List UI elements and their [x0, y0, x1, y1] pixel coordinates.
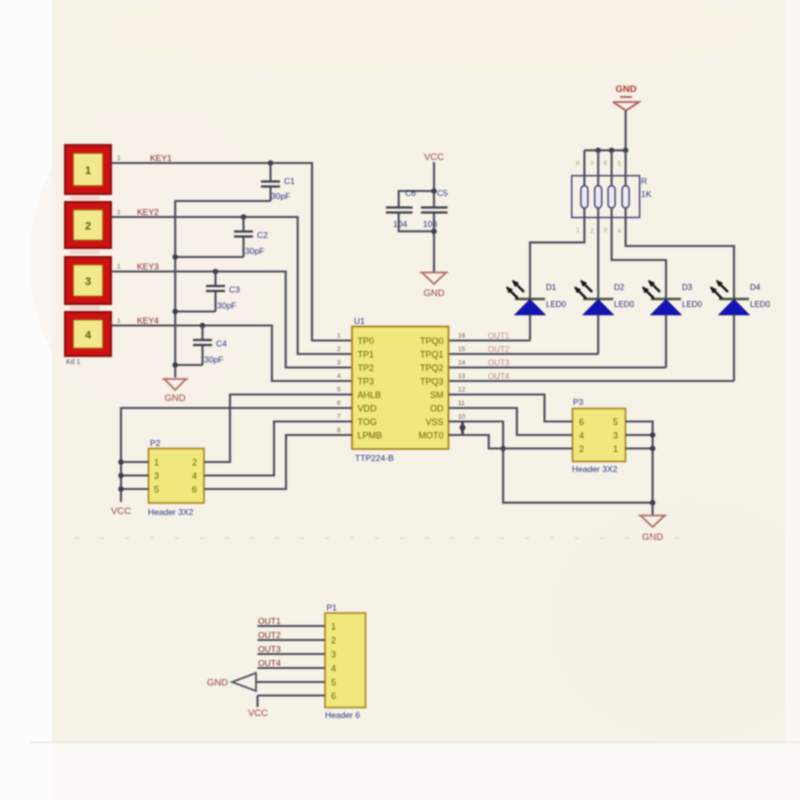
svg-text:OD: OD [430, 404, 444, 414]
svg-text:4: 4 [618, 228, 622, 235]
header P2 3X2 [149, 449, 205, 504]
svg-text:KEY4: KEY4 [137, 316, 159, 326]
svg-text:6: 6 [337, 400, 341, 407]
resistor network R 1K [572, 176, 640, 218]
svg-text:OUT4: OUT4 [488, 372, 510, 381]
svg-text:6: 6 [579, 417, 584, 427]
svg-text:7: 7 [337, 414, 341, 421]
svg-text:3: 3 [604, 227, 608, 234]
LED D1 [507, 281, 545, 315]
wire resistor 1 to LED D1 [530, 150, 584, 299]
svg-text:4: 4 [192, 471, 197, 481]
ground symbol left [163, 379, 189, 390]
svg-text:3: 3 [613, 431, 618, 441]
wire OUT2 IC to LED D2 [449, 315, 599, 354]
svg-text:LED0: LED0 [546, 300, 567, 309]
svg-text:6: 6 [604, 160, 608, 167]
wire P1 pin 1 [258, 625, 326, 627]
svg-text:SM: SM [430, 390, 444, 400]
svg-text:TPQ2: TPQ2 [420, 363, 444, 373]
svg-text:D3: D3 [682, 283, 693, 292]
wire KEY1 [111, 160, 352, 340]
header P3 3X2 [573, 409, 626, 462]
wire VCC to decoupling caps [399, 162, 437, 272]
svg-text:P3: P3 [573, 397, 584, 407]
svg-text:2: 2 [590, 228, 594, 235]
svg-text:5: 5 [613, 417, 618, 427]
svg-text:Header 6: Header 6 [325, 710, 360, 720]
svg-text:OUT1: OUT1 [258, 616, 281, 626]
capacitor C6 [386, 208, 413, 213]
wire OUT4 IC to LED D4 [449, 315, 735, 381]
svg-text:1: 1 [85, 165, 91, 177]
svg-text:30pF: 30pF [245, 246, 264, 256]
svg-text:KEY1: KEY1 [150, 153, 172, 163]
svg-text:5: 5 [154, 485, 159, 495]
wire LPMB to P2 pin 6 [204, 435, 352, 489]
capacitor C5 [421, 208, 448, 213]
faint dashed artifact line [75, 537, 695, 539]
svg-text:30pF: 30pF [271, 191, 290, 201]
svg-text:C1: C1 [284, 176, 295, 186]
svg-text:OUT2: OUT2 [258, 630, 281, 640]
svg-text:OUT2: OUT2 [488, 345, 510, 354]
wire KEY3 [111, 269, 352, 368]
svg-text:30pF: 30pF [204, 355, 223, 365]
wire OD to P3 pin 4 [449, 408, 573, 435]
svg-text:TPQ1: TPQ1 [420, 350, 444, 360]
svg-text:LED0: LED0 [682, 300, 703, 309]
svg-text:GND: GND [164, 393, 185, 404]
svg-text:GND: GND [615, 84, 636, 95]
svg-text:D2: D2 [614, 283, 625, 292]
wire P1 pin 6 VCC [258, 696, 326, 708]
svg-text:8: 8 [337, 427, 341, 434]
svg-text:U1: U1 [354, 316, 365, 326]
svg-text:2: 2 [579, 444, 584, 454]
IC U1 TTP224-B [352, 327, 449, 450]
svg-text:6: 6 [192, 485, 197, 495]
svg-text:5: 5 [618, 161, 622, 168]
svg-text:KEY3: KEY3 [137, 262, 159, 272]
svg-text:VSS: VSS [425, 417, 443, 427]
key pad 4 [65, 312, 111, 356]
resistor pin numbers top [576, 160, 622, 168]
svg-text:C6: C6 [405, 188, 416, 198]
key pad 2 [65, 202, 111, 248]
svg-text:10: 10 [458, 414, 466, 421]
wire OUT1 IC to LED D1 [449, 315, 531, 341]
svg-text:TPQ0: TPQ0 [420, 336, 444, 346]
svg-text:13: 13 [458, 373, 466, 380]
svg-text:5: 5 [337, 387, 341, 394]
svg-text:TP2: TP2 [358, 363, 375, 373]
svg-text:3: 3 [154, 471, 159, 481]
svg-text:4: 4 [85, 330, 92, 342]
svg-text:30pF: 30pF [217, 301, 236, 311]
resistor pin numbers bottom [576, 227, 622, 235]
svg-text:OUT3: OUT3 [258, 644, 281, 654]
svg-text:11: 11 [458, 400, 465, 407]
svg-text:MOT0: MOT0 [418, 431, 443, 441]
key pad 3 [65, 257, 111, 304]
svg-text:R: R [641, 176, 647, 186]
svg-text:1: 1 [331, 622, 336, 632]
svg-text:C3: C3 [229, 285, 240, 295]
svg-text:KEY2: KEY2 [137, 207, 159, 217]
wire P3 right pins to ground [626, 422, 656, 516]
svg-text:GND: GND [423, 288, 444, 299]
svg-text:1: 1 [613, 444, 618, 454]
svg-text:AHLB: AHLB [358, 390, 382, 400]
capacitor C4 [193, 326, 212, 366]
svg-text:2: 2 [85, 221, 91, 233]
svg-text:P1: P1 [327, 603, 338, 613]
svg-text:GND: GND [207, 678, 228, 689]
wire resistor 3 to LED D3 [612, 150, 666, 299]
power port GND arrow P1 [232, 673, 256, 691]
wire resistor 4 to LED D4 [626, 150, 734, 299]
wire P1 pin 4 [258, 667, 326, 669]
capacitor C1 [261, 163, 280, 201]
svg-text:1: 1 [117, 155, 121, 162]
wire resistor 2 to LED D2 [597, 150, 599, 299]
svg-text:Kd 1: Kd 1 [66, 359, 81, 366]
wire P1 pin 2 [258, 639, 326, 641]
wire P1 pin 5 GND [256, 681, 325, 683]
svg-text:4: 4 [579, 431, 584, 441]
svg-text:P2: P2 [150, 438, 161, 448]
wire VSS to ground [449, 422, 653, 503]
LED D4 [711, 281, 749, 315]
svg-text:2: 2 [192, 458, 197, 468]
svg-text:VDD: VDD [358, 404, 378, 414]
wire TOG to P2 pin 4 [204, 422, 352, 476]
svg-text:TP0: TP0 [358, 336, 375, 346]
svg-text:VCC: VCC [424, 152, 444, 163]
key pad 1 [65, 145, 111, 194]
wire KEY4 [111, 323, 352, 381]
svg-text:104: 104 [393, 219, 407, 229]
LED D2 [575, 281, 613, 315]
svg-text:1: 1 [117, 209, 121, 216]
svg-text:4: 4 [331, 664, 336, 674]
svg-text:OUT4: OUT4 [258, 658, 281, 668]
svg-text:Header 3X2: Header 3X2 [572, 464, 618, 474]
svg-text:LED0: LED0 [614, 300, 635, 309]
svg-text:C5: C5 [437, 188, 448, 198]
svg-text:14: 14 [458, 360, 466, 367]
svg-text:C2: C2 [257, 230, 268, 240]
svg-text:12: 12 [458, 387, 466, 394]
svg-text:1: 1 [576, 227, 580, 234]
svg-text:1: 1 [117, 264, 121, 271]
header P1 Header 6 [325, 613, 366, 708]
decorative faint marks between pads [70, 196, 100, 310]
svg-text:8: 8 [576, 160, 580, 167]
svg-text:1K: 1K [641, 189, 652, 199]
wire P1 pin 3 [258, 653, 326, 655]
wire VDD / VCC bus left [118, 408, 352, 502]
svg-text:1: 1 [337, 333, 341, 340]
faint bottom boundary [30, 742, 800, 744]
power port GND top [613, 97, 639, 111]
wire KEY2 [111, 214, 352, 354]
svg-text:3: 3 [85, 276, 91, 288]
wire capacitor ground bus [172, 201, 270, 378]
LED D3 [643, 281, 681, 315]
svg-text:6: 6 [331, 691, 336, 701]
wire AHLB to P2 pin 2 [204, 395, 352, 463]
svg-text:OUT3: OUT3 [488, 359, 510, 368]
wire VSS MOT0 tie [460, 422, 466, 436]
svg-text:C4: C4 [216, 339, 227, 349]
svg-text:15: 15 [458, 346, 466, 353]
svg-text:OUT1: OUT1 [488, 332, 510, 341]
svg-text:LPMB: LPMB [358, 431, 383, 441]
svg-text:3: 3 [337, 360, 341, 367]
svg-text:TTP224-B: TTP224-B [355, 453, 394, 463]
wire SM to P3 pin 6 [449, 395, 573, 422]
wire GND top to resistor network [584, 111, 628, 154]
svg-text:7: 7 [590, 161, 594, 168]
svg-text:VCC: VCC [111, 506, 131, 517]
svg-text:2: 2 [331, 636, 336, 646]
svg-text:4: 4 [337, 373, 341, 380]
svg-text:2: 2 [337, 346, 341, 353]
ground symbol right [639, 516, 667, 528]
wire MOT0 to P3 pin 2 [449, 435, 573, 449]
capacitor C2 [234, 217, 253, 257]
svg-text:D4: D4 [750, 283, 761, 292]
svg-text:1: 1 [154, 458, 159, 468]
svg-text:TP1: TP1 [358, 350, 375, 360]
svg-text:LED0: LED0 [750, 300, 771, 309]
svg-text:D1: D1 [546, 283, 557, 292]
svg-text:3: 3 [331, 650, 336, 660]
svg-text:TOG: TOG [358, 417, 377, 427]
svg-text:5: 5 [331, 678, 336, 688]
svg-text:1: 1 [117, 318, 121, 325]
svg-text:TP3: TP3 [358, 377, 375, 387]
svg-text:VCC: VCC [248, 708, 268, 719]
svg-text:106: 106 [423, 219, 437, 229]
capacitor C3 [206, 272, 225, 312]
svg-text:TPQ3: TPQ3 [420, 377, 444, 387]
svg-text:Header 3X2: Header 3X2 [148, 507, 194, 517]
ground symbol mid [420, 273, 448, 285]
svg-text:16: 16 [458, 333, 466, 340]
wire OUT3 IC to LED D3 [449, 315, 667, 368]
